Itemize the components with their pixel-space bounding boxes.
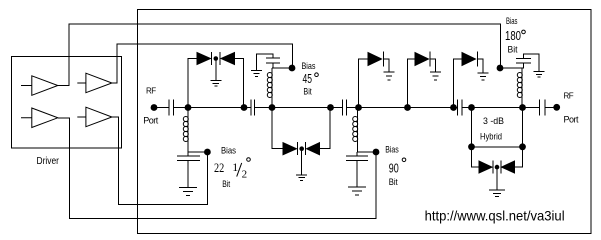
capacitor C3 <box>343 100 347 116</box>
wire riser n7 to diode D7 <box>454 59 463 108</box>
3-dB hybrid box <box>472 108 523 147</box>
wire node n4 to C3 <box>331 107 343 109</box>
diode D8 <box>479 161 492 173</box>
node n5 <box>355 104 362 111</box>
node bias 90 <box>373 149 380 156</box>
wire C2 to node n3 <box>255 107 273 109</box>
wire C5 to RF output <box>545 107 557 109</box>
capacitor C8 <box>177 152 200 160</box>
svg-text:2: 2 <box>242 169 248 181</box>
inductor L4 (180 bit) <box>521 68 523 108</box>
wire node n9 to C5 <box>523 107 540 109</box>
buffer U1A top-left <box>21 76 58 96</box>
node diode pair 1 center <box>214 56 219 61</box>
svg-text:45: 45 <box>303 71 313 86</box>
svg-text:90: 90 <box>389 160 399 175</box>
node hybrid bottom left <box>468 143 475 150</box>
svg-text:Port: Port <box>143 115 159 125</box>
buffer U1D bottom-right <box>77 107 112 127</box>
buffer U1C bottom-left <box>21 108 58 128</box>
node bias 45 <box>289 65 296 72</box>
wire C4 to node n8 <box>462 107 472 109</box>
node n7 <box>450 104 457 111</box>
capacitor C9 <box>346 152 368 161</box>
wire node n2 to C2 <box>244 107 251 109</box>
node bias 180 <box>497 65 504 72</box>
diode D3 <box>283 143 297 155</box>
wire diode pair 2 to node n4 <box>320 108 331 149</box>
svg-text:Bias: Bias <box>221 146 236 157</box>
svg-text:22: 22 <box>214 160 224 175</box>
inductor L3 (90 bit) <box>357 108 359 153</box>
node n4 <box>327 104 334 111</box>
ground C9 <box>348 161 366 196</box>
svg-text:Bit: Bit <box>508 45 518 56</box>
inductor L1 (22.5 bit) <box>187 108 189 153</box>
node RF input port <box>151 104 158 111</box>
svg-text:3 -dB: 3 -dB <box>483 116 504 127</box>
wire node n8 to node n9 (hybrid top) <box>472 107 523 109</box>
wire hybrid left leg to diode pair 3 <box>472 147 480 167</box>
wire driver to bias 180 <box>58 24 501 86</box>
ground diode pair 2 <box>296 149 307 181</box>
svg-text:RF: RF <box>564 92 574 101</box>
svg-text:Driver: Driver <box>37 156 60 167</box>
wire node n3 to node n4 <box>272 107 331 109</box>
wire driver to bias 22.5 <box>112 117 207 205</box>
diode D9 <box>502 161 515 173</box>
capacitor C7 <box>516 59 531 68</box>
diode D7 <box>462 53 476 66</box>
node diode pair 3 center <box>495 165 500 170</box>
svg-text:Port: Port <box>564 115 580 125</box>
diode D1 <box>197 53 211 65</box>
wire driver to bias 45 <box>112 44 293 83</box>
capacitor C6 <box>266 58 280 68</box>
wire C3 to node n5 <box>347 107 359 109</box>
ground diode pair 3 <box>489 167 505 197</box>
svg-text:180: 180 <box>505 28 521 43</box>
diode D2 <box>221 53 235 65</box>
svg-text:Bit: Bit <box>303 86 312 97</box>
svg-text:Bias: Bias <box>506 16 518 27</box>
svg-text:Bias: Bias <box>385 145 399 156</box>
wire node n1 to node n2 <box>188 107 244 109</box>
node hybrid bottom right <box>519 143 526 150</box>
driver box <box>12 56 122 148</box>
ground C7 <box>524 54 545 77</box>
ground D6 <box>430 59 441 80</box>
wire RF input to C1 <box>154 107 169 109</box>
ground diode pair 1 <box>210 59 221 87</box>
diode D4 <box>307 143 320 155</box>
node n8 <box>468 104 475 111</box>
node bias 22.5 <box>204 149 211 156</box>
wire riser n5 to diode D5 <box>359 59 369 108</box>
capacitor C2 <box>251 100 255 116</box>
inductor L2 (45 bit) <box>271 68 273 108</box>
node n2 <box>241 104 248 111</box>
svg-text:1: 1 <box>232 160 238 174</box>
ground C8 <box>179 160 197 195</box>
diode D5 <box>368 53 382 66</box>
buffer U1B top-right <box>77 73 112 93</box>
svg-text:Hybrid: Hybrid <box>480 132 502 143</box>
node n3 <box>269 104 276 111</box>
node n1 <box>185 104 192 111</box>
wire L1 to bias 22.5 node <box>188 151 207 153</box>
node RF output port <box>553 104 560 111</box>
svg-text:RF: RF <box>146 86 156 95</box>
ground D7 <box>478 59 489 80</box>
wire driver to bias 90 <box>58 118 376 219</box>
wire diode pair 1 to node n2 <box>235 59 244 108</box>
node n9 <box>519 104 526 111</box>
wire hybrid right leg to diode pair 3 <box>515 147 523 167</box>
wire bias 45 junction <box>272 67 292 69</box>
ground D5 <box>384 59 395 80</box>
wire C1 to node n1 <box>174 107 189 109</box>
wire node n5 to node n6 <box>359 107 408 109</box>
wire riser n3 to diode pair 2 <box>272 108 283 149</box>
capacitor C5 <box>540 100 546 116</box>
wire node n6 to node n7 <box>408 107 454 109</box>
node n6 <box>404 104 411 111</box>
svg-text:Bit: Bit <box>389 177 398 188</box>
capacitor C4 <box>458 100 463 116</box>
node diode pair 2 center <box>299 146 304 151</box>
wire bias 180 junction <box>500 67 524 69</box>
wire L3 to bias 90 node <box>358 151 377 153</box>
ground C6 <box>251 54 273 76</box>
wire node n7 to C4 <box>454 107 458 109</box>
svg-text:http://www.qsl.net/va3iul: http://www.qsl.net/va3iul <box>425 208 565 224</box>
wire riser n1 to diode pair 1 <box>188 59 197 108</box>
svg-text:Bit: Bit <box>222 179 230 190</box>
wire riser n6 to diode D6 <box>408 59 416 108</box>
diode D6 <box>415 53 429 66</box>
capacitor C1 <box>169 100 174 116</box>
